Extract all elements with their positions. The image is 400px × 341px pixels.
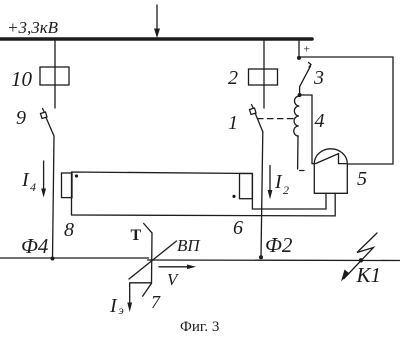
svg-text:5: 5 xyxy=(357,168,367,190)
fuse 2 xyxy=(249,69,278,85)
svg-text:+: + xyxy=(304,44,311,56)
svg-text:э: э xyxy=(119,303,124,317)
wire: core right edge to valve left leg xyxy=(252,174,326,210)
svg-text:I: I xyxy=(109,295,118,317)
polarity dot winding 6 xyxy=(232,195,235,198)
current arrow I2 xyxy=(268,166,273,200)
short-circuit bolt K1 xyxy=(341,233,377,282)
svg-text:Т: Т xyxy=(131,227,142,244)
svg-text:ВП: ВП xyxy=(177,236,201,255)
svg-text:К1: К1 xyxy=(356,263,381,287)
svg-text:2: 2 xyxy=(228,67,238,89)
switch 3 xyxy=(300,63,311,96)
wire: bus to node plus xyxy=(298,41,300,58)
svg-text:Фиг. 3: Фиг. 3 xyxy=(180,319,219,335)
svg-text:10: 10 xyxy=(11,67,33,91)
svg-text:1: 1 xyxy=(228,112,238,134)
polarity dot winding 8 xyxy=(75,174,78,177)
svg-text:4: 4 xyxy=(30,180,36,194)
dashed link switch1 to coil4 xyxy=(258,118,298,120)
svg-text:V: V xyxy=(167,270,180,289)
rail right segment xyxy=(148,259,400,262)
velocity arrow V xyxy=(159,265,196,270)
CT long core box xyxy=(72,172,253,215)
current arrow Ie xyxy=(127,297,132,312)
wire: core bottom to valve right leg xyxy=(72,193,336,216)
svg-text:Ф2: Ф2 xyxy=(265,233,293,257)
current arrow I4 xyxy=(41,161,46,198)
svg-text:Ф4: Ф4 xyxy=(21,234,49,258)
air gap slash xyxy=(129,241,177,279)
svg-text:I: I xyxy=(274,171,283,193)
node coil top (junction dot) xyxy=(298,93,302,97)
section insulator T xyxy=(143,224,152,297)
wire: switch 1 to rail (phase F2) xyxy=(261,132,263,257)
label minus xyxy=(300,170,305,172)
svg-text:+3,3кВ: +3,3кВ xyxy=(7,18,59,37)
inductor 4 xyxy=(294,96,300,136)
valve 5 (dome) xyxy=(314,149,347,194)
node F2 (junction dot) xyxy=(259,255,263,259)
svg-text:8: 8 xyxy=(64,219,74,241)
svg-text:3: 3 xyxy=(313,67,324,89)
winding 8 (left box) xyxy=(62,173,73,198)
svg-text:2: 2 xyxy=(283,183,289,197)
svg-text:7: 7 xyxy=(151,292,161,312)
node plus (junction dot) xyxy=(297,56,301,60)
wire: bus to fuse 2 xyxy=(263,41,265,109)
switch 1 xyxy=(250,105,263,132)
switch 9 xyxy=(41,109,55,137)
node K1 (junction dot) xyxy=(359,258,363,262)
wire: top-right loop to valve 5 anode xyxy=(299,57,393,164)
wire: node to valve 5 left shoulder xyxy=(300,95,315,164)
feed arrow into bus xyxy=(154,5,160,38)
fuse 10 xyxy=(40,67,69,85)
wire: insulator to Ie branch xyxy=(130,283,152,297)
svg-text:9: 9 xyxy=(16,107,26,129)
wire: bus to fuse 10 xyxy=(54,41,56,109)
svg-text:4: 4 xyxy=(315,110,325,132)
svg-text:6: 6 xyxy=(233,217,243,239)
rail left segment xyxy=(0,257,149,259)
node F4 (junction dot) xyxy=(51,257,55,261)
wire: switch 9 to rail (phase F4) xyxy=(53,136,55,259)
svg-text:I: I xyxy=(21,169,30,191)
winding 6 (right box) xyxy=(240,174,253,199)
bus +3.3kV xyxy=(0,37,312,41)
wire: coil bottom minus terminal xyxy=(297,136,299,169)
